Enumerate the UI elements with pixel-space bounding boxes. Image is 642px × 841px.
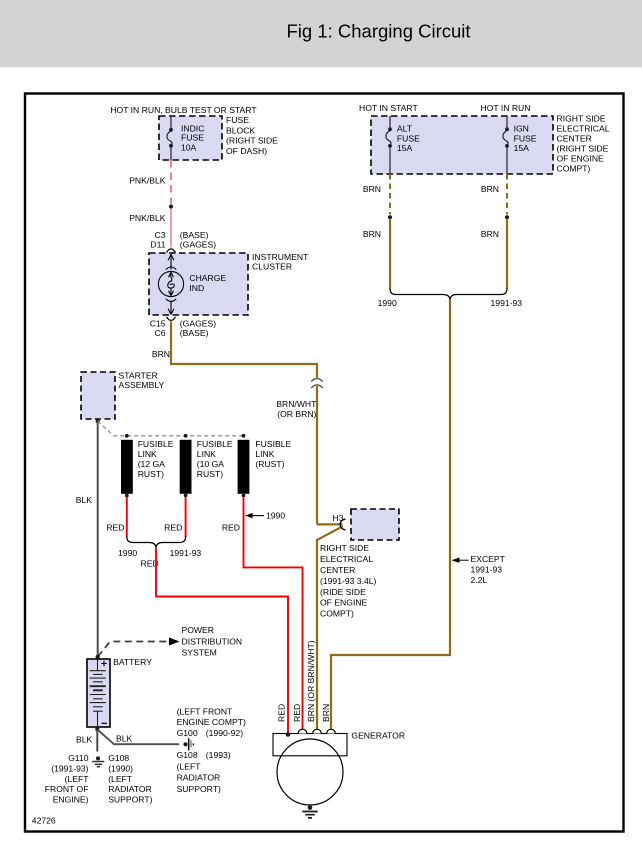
wire BLK to G110 ground xyxy=(96,729,98,751)
svg-text:FUSE: FUSE xyxy=(514,133,537,143)
svg-text:FUSIBLE: FUSIBLE xyxy=(138,439,174,449)
svg-text:RED: RED xyxy=(164,523,182,533)
svg-text:Fig 1: Charging Circuit: Fig 1: Charging Circuit xyxy=(287,21,471,42)
generator connector block xyxy=(273,734,347,756)
fusible link FL3 xyxy=(238,440,250,494)
battery B1 xyxy=(87,659,110,727)
svg-text:PNK/BLK: PNK/BLK xyxy=(129,213,166,223)
connector H3 arc xyxy=(340,519,345,530)
svg-text:FUSIBLE: FUSIBLE xyxy=(197,439,233,449)
svg-text:BRN: BRN xyxy=(363,184,381,194)
svg-text:FUSE: FUSE xyxy=(226,115,249,125)
svg-text:BLOCK: BLOCK xyxy=(226,125,255,135)
svg-text:15A: 15A xyxy=(514,143,530,153)
svg-text:RED: RED xyxy=(106,523,124,533)
svg-text:G110: G110 xyxy=(68,753,89,763)
svg-text:IGN: IGN xyxy=(514,123,529,133)
svg-text:(LEFT FRONT: (LEFT FRONT xyxy=(177,706,233,716)
svg-text:BATTERY: BATTERY xyxy=(113,657,152,667)
svg-text:PNK/BLK: PNK/BLK xyxy=(129,176,166,186)
svg-text:BLK: BLK xyxy=(76,495,93,505)
svg-text:C6: C6 xyxy=(155,328,166,338)
connector arc D11 xyxy=(167,249,176,253)
fuse block box (right side of dash) xyxy=(159,116,222,160)
right side electrical center box (1991-93 3.4L) xyxy=(351,509,399,540)
svg-text:EXCEPT: EXCEPT xyxy=(471,554,506,564)
junction dot under FL1 xyxy=(125,494,129,498)
junction splice xyxy=(388,215,392,219)
svg-text:RUST): RUST) xyxy=(197,469,223,479)
svg-text:RIGHT SIDE: RIGHT SIDE xyxy=(320,543,369,553)
svg-text:1990: 1990 xyxy=(378,298,397,308)
dashed arrow to power distribution system xyxy=(98,642,170,657)
merge brace 1990/1991-93 xyxy=(390,289,507,301)
svg-text:COMPT): COMPT) xyxy=(320,609,354,619)
connector arc RED2 xyxy=(298,729,307,733)
svg-text:RUST): RUST) xyxy=(138,469,164,479)
svg-text:FRONT OF: FRONT OF xyxy=(45,784,89,794)
wire BLK to G100 xyxy=(97,729,179,744)
svg-text:SUPPORT): SUPPORT) xyxy=(177,784,221,794)
svg-text:BRN/WHT: BRN/WHT xyxy=(276,399,317,409)
svg-text:G100: G100 xyxy=(177,728,198,738)
arrow 1990 at FL3 wire xyxy=(245,513,253,518)
battery minus terminal xyxy=(102,722,108,724)
svg-text:DISTRIBUTION: DISTRIBUTION xyxy=(182,636,243,646)
svg-text:BRN: BRN xyxy=(481,229,499,239)
svg-text:CLUSTER: CLUSTER xyxy=(252,261,292,271)
svg-text:1991-93: 1991-93 xyxy=(471,565,503,575)
svg-text:G108: G108 xyxy=(108,753,129,763)
svg-text:OF DASH): OF DASH) xyxy=(226,146,267,156)
svg-text:10A: 10A xyxy=(181,142,197,152)
svg-text:(LEFT: (LEFT xyxy=(177,761,202,771)
fuse F3 IGN FUSE 15A xyxy=(503,116,508,174)
wire PNK/BLK solid xyxy=(170,209,172,248)
svg-text:D11: D11 xyxy=(150,239,165,249)
wire BRN/WHT vertical with break xyxy=(316,386,318,524)
svg-text:1990: 1990 xyxy=(118,548,137,558)
svg-text:RED: RED xyxy=(292,704,302,722)
wire BRN dashed left xyxy=(389,174,391,215)
junction dot under FL3 xyxy=(242,494,246,498)
svg-text:RADIATOR: RADIATOR xyxy=(177,773,221,783)
break symbol xyxy=(311,379,322,389)
svg-text:1990: 1990 xyxy=(266,511,285,521)
svg-text:BLK: BLK xyxy=(116,733,133,743)
wire RED merged to generator xyxy=(156,549,288,737)
wire to H3 connector xyxy=(317,524,343,729)
title bar xyxy=(0,0,642,68)
junction dot under FL2 xyxy=(184,494,188,498)
ground at generator xyxy=(308,805,313,810)
svg-text:(BASE): (BASE) xyxy=(180,328,209,338)
svg-text:BRN: BRN xyxy=(481,184,499,194)
wire RED under FL1 xyxy=(126,497,128,537)
connector G100 splice xyxy=(183,742,187,746)
svg-text:BRN: BRN xyxy=(321,704,331,722)
fusible link FL2 xyxy=(180,440,192,494)
fusible link FL1 xyxy=(121,440,133,494)
junction splice xyxy=(505,215,509,219)
junction dot link1 xyxy=(125,434,129,438)
svg-text:(1993): (1993) xyxy=(206,750,231,760)
svg-text:BRN: BRN xyxy=(363,229,381,239)
wire BRN solid right xyxy=(506,220,508,290)
svg-text:ALT: ALT xyxy=(397,123,413,133)
svg-text:(LEFT: (LEFT xyxy=(108,774,133,784)
svg-text:(10 GA: (10 GA xyxy=(197,459,224,469)
wire RED under FL3 to generator xyxy=(244,497,303,729)
svg-text:STARTER: STARTER xyxy=(119,371,158,381)
svg-text:H3: H3 xyxy=(333,513,344,523)
svg-text:CHARGE: CHARGE xyxy=(189,273,226,283)
junction under battery xyxy=(95,727,99,731)
svg-text:ELECTRICAL: ELECTRICAL xyxy=(320,554,373,564)
wire BRN solid left xyxy=(389,220,391,290)
svg-text:(RIGHT SIDE: (RIGHT SIDE xyxy=(226,136,278,146)
starter assembly box xyxy=(81,372,115,419)
generator G1 circle xyxy=(277,739,343,805)
svg-text:POWER: POWER xyxy=(182,625,214,635)
ground G110 xyxy=(96,756,100,760)
junction dot link2 xyxy=(184,434,188,438)
arrow EXCEPT 1991-93 2.2L xyxy=(452,558,460,563)
svg-text:SYSTEM: SYSTEM xyxy=(182,648,217,658)
wire BLK starter to battery xyxy=(97,421,99,657)
svg-text:RADIATOR: RADIATOR xyxy=(108,784,152,794)
wire PNK/BLK dashed xyxy=(170,160,172,204)
svg-text:COMPT): COMPT) xyxy=(557,163,591,173)
svg-text:HOT IN START: HOT IN START xyxy=(359,103,418,113)
svg-text:BRN (OR BRN/WHT): BRN (OR BRN/WHT) xyxy=(306,640,316,722)
svg-text:ASSEMBLY: ASSEMBLY xyxy=(119,380,165,390)
svg-text:HOT IN RUN: HOT IN RUN xyxy=(481,103,531,113)
junction dot link3 xyxy=(242,434,246,438)
svg-text:FUSIBLE: FUSIBLE xyxy=(255,439,291,449)
wire RED under FL2 xyxy=(185,497,187,537)
svg-text:(RIGHT SIDE: (RIGHT SIDE xyxy=(557,143,609,153)
svg-text:CENTER: CENTER xyxy=(557,133,592,143)
svg-text:2.2L: 2.2L xyxy=(471,575,488,585)
svg-text:GENERATOR: GENERATOR xyxy=(351,731,405,741)
svg-text:RED: RED xyxy=(277,704,287,722)
fuse F1 INDIC FUSE 10A xyxy=(167,116,172,160)
svg-text:LINK: LINK xyxy=(197,449,216,459)
svg-text:(LEFT: (LEFT xyxy=(65,774,90,784)
svg-text:HOT IN RUN, BULB TEST OR START: HOT IN RUN, BULB TEST OR START xyxy=(110,105,257,115)
wire BRN from cluster xyxy=(171,322,317,378)
terminal dot RED xyxy=(286,732,290,736)
connector arc C15 xyxy=(167,317,176,321)
battery plus terminal xyxy=(101,661,107,667)
svg-text:(1990-92): (1990-92) xyxy=(206,728,243,738)
svg-text:1991-93: 1991-93 xyxy=(491,298,523,308)
svg-text:RED: RED xyxy=(222,523,240,533)
svg-text:FUSE: FUSE xyxy=(181,133,204,143)
svg-text:(OR BRN): (OR BRN) xyxy=(277,409,316,419)
svg-text:CENTER: CENTER xyxy=(320,565,355,575)
svg-text:(1991-93 3.4L): (1991-93 3.4L) xyxy=(320,576,377,586)
svg-text:OF ENGINE: OF ENGINE xyxy=(557,153,605,163)
svg-text:RIGHT SIDE: RIGHT SIDE xyxy=(557,113,606,123)
svg-text:(1991-93): (1991-93) xyxy=(51,763,88,773)
svg-text:42726: 42726 xyxy=(32,816,56,826)
svg-text:BRN: BRN xyxy=(152,349,170,359)
wire BRN to generator (right run) xyxy=(331,301,450,730)
dashed bus to fusible links xyxy=(98,421,244,436)
fuse F2 ALT FUSE 15A xyxy=(386,116,391,174)
svg-text:ENGINE): ENGINE) xyxy=(53,795,89,805)
merge brace 1990/1991-93 left xyxy=(127,537,186,549)
svg-text:15A: 15A xyxy=(397,143,413,153)
svg-text:FUSE: FUSE xyxy=(397,133,420,143)
svg-text:SUPPORT): SUPPORT) xyxy=(108,795,152,805)
svg-text:ELECTRICAL: ELECTRICAL xyxy=(557,123,610,133)
svg-text:(RIDE SIDE: (RIDE SIDE xyxy=(320,587,366,597)
svg-text:BLK: BLK xyxy=(76,735,93,745)
instrument cluster box xyxy=(149,253,248,315)
svg-text:(12 GA: (12 GA xyxy=(138,459,165,469)
svg-text:LINK: LINK xyxy=(255,449,274,459)
battery plates xyxy=(90,659,106,726)
svg-text:(RUST): (RUST) xyxy=(255,459,284,469)
svg-text:OF ENGINE: OF ENGINE xyxy=(320,598,368,608)
connector arc BRN xyxy=(327,729,336,733)
junction at starter xyxy=(96,419,100,423)
svg-text:(1990): (1990) xyxy=(108,763,133,773)
junction at battery positive xyxy=(96,655,100,659)
svg-text:IND: IND xyxy=(189,283,204,293)
junction splice xyxy=(169,205,173,209)
svg-text:LINK: LINK xyxy=(138,449,157,459)
charge indicator lamp U1 xyxy=(158,254,183,314)
connector arc BRN/WHT xyxy=(313,729,322,733)
wire BRN dashed right xyxy=(506,174,508,215)
right side electrical center box xyxy=(371,116,553,174)
svg-text:(GAGES): (GAGES) xyxy=(180,239,216,249)
svg-text:G108: G108 xyxy=(177,750,198,760)
svg-text:ENGINE COMPT): ENGINE COMPT) xyxy=(177,717,246,727)
svg-text:1991-93: 1991-93 xyxy=(170,548,202,558)
